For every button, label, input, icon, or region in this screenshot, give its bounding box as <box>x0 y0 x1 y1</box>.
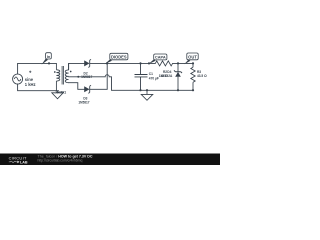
svg-text:470 µF: 470 µF <box>149 76 159 80</box>
svg-text:LAB: LAB <box>20 161 28 165</box>
svg-text:1N4732A: 1N4732A <box>159 74 173 78</box>
node OUT junction dot <box>192 62 194 64</box>
wire bottom left loop <box>18 84 59 91</box>
node R3 bottom dot <box>192 89 194 91</box>
node center tap terminal dot <box>77 76 79 78</box>
svg-text:CAPA: CAPA <box>155 55 166 60</box>
ground secondary side <box>141 90 153 100</box>
wire top left loop <box>18 63 57 74</box>
label flag CAPA <box>148 54 167 64</box>
zener diode D4 1N4732A <box>174 63 182 90</box>
transformer phase dot primary <box>54 71 56 73</box>
transformer phase dot secondary <box>70 71 72 73</box>
diode D3 1N5817 <box>84 85 91 93</box>
V1 plus sign <box>29 71 31 73</box>
svg-text:1N5817: 1N5817 <box>81 75 92 79</box>
diode D2 1N5817 <box>84 59 91 67</box>
voltage source V1 <box>13 74 23 84</box>
wire center tap with hop over D3 branch <box>69 75 193 91</box>
wire D2 cathode to R2 (top rail) <box>90 62 155 64</box>
transformer XFMR1 primary winding <box>56 63 59 90</box>
resistor R2 <box>155 61 172 66</box>
resistor R3 43.5 ohm <box>191 63 195 90</box>
svg-text:http://circuitlab.com/c/4vh6mq: http://circuitlab.com/c/4vh6mq <box>38 159 83 163</box>
label flag In <box>42 53 52 65</box>
node CAPA junction dot <box>148 62 150 64</box>
logo CIRCUIT LAB <box>9 156 28 165</box>
wire R2 right to R3 top <box>173 62 193 64</box>
transformer core <box>62 66 63 85</box>
wire secondary bottom lead to D3 <box>69 83 85 90</box>
svg-text:1N5817: 1N5817 <box>78 100 89 104</box>
svg-text:1 kHz: 1 kHz <box>25 82 36 87</box>
node In junction dot <box>48 62 50 64</box>
transformer XFMR1 secondary winding (center tapped) <box>65 63 68 82</box>
node ground rail dot <box>146 89 148 91</box>
node C1 bottom dot <box>139 89 141 91</box>
node D4 bottom dot <box>177 89 179 91</box>
node DIODES junction dot <box>106 62 108 64</box>
svg-text:OUT: OUT <box>188 55 197 60</box>
wire secondary top to D2 <box>69 63 85 69</box>
footer bar <box>0 154 220 166</box>
svg-text:DIODES: DIODES <box>111 55 127 60</box>
ground primary side <box>52 91 63 99</box>
capacitor C1 470 uF <box>135 63 148 90</box>
wire D3 cathode to top rail <box>90 63 107 89</box>
node D4 top dot <box>177 62 179 64</box>
node C1 top dot <box>139 62 141 64</box>
svg-text:43.5 Ω: 43.5 Ω <box>197 74 207 78</box>
label flag DIODES <box>105 53 128 64</box>
label flag OUT <box>184 53 198 64</box>
